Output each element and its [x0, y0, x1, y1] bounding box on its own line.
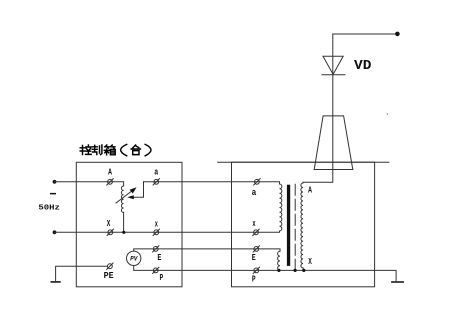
svg-text:A: A — [308, 185, 312, 196]
svg-text:X: X — [107, 218, 111, 229]
台 — [131, 145, 140, 155]
node source terminal upper (dot) — [53, 180, 57, 184]
stray mark — [387, 113, 389, 115]
node junction variac/X row — [122, 231, 125, 234]
wire PE to left ground — [56, 266, 108, 281]
制 — [92, 145, 102, 155]
bushing (porcelain, trapezoid on tank lid) — [314, 116, 353, 170]
diode VD (triangle + cathode bar) — [322, 56, 345, 74]
wire row X: source through X and x terminals to primary coil bottom — [55, 231, 280, 232]
箱 — [104, 145, 115, 155]
svg-text:A: A — [108, 167, 112, 178]
wire row P: meter bottom through P terminals, tank bus to right ground — [134, 266, 396, 281]
svg-text:E: E — [252, 252, 256, 263]
node HV output terminal (filled dot) — [395, 32, 400, 37]
terminal a (control box) — [153, 179, 159, 185]
svg-text:VD: VD — [354, 58, 371, 74]
wire secondary bottom to ground bus — [302, 268, 305, 271]
svg-text:PV: PV — [130, 256, 139, 263]
transformer T2 instrument winding E-P — [278, 251, 280, 270]
svg-text:50Hz: 50Hz — [38, 205, 60, 213]
svg-text:a: a — [154, 167, 158, 178]
svg-text:P: P — [252, 273, 256, 284]
wire HV vertical conductor through diode and bushing down into tank — [303, 34, 333, 182]
terminal x (tank) — [253, 229, 259, 235]
voltmeter PV — [127, 251, 141, 265]
ground left (PE earth bar) — [51, 281, 59, 283]
wire row a: variac tap to tank primary terminal a and coil top — [144, 182, 280, 184]
variac T1 winding (coil) — [121, 186, 123, 212]
tank lid line (overhangs tank box) — [218, 161, 389, 163]
svg-text:X: X — [308, 256, 312, 267]
node secondary X junction on ground bus — [302, 269, 305, 272]
svg-text:PE: PE — [104, 270, 114, 281]
（ — [121, 144, 127, 155]
label 控制箱（台） title (drawn strokes) — [80, 144, 151, 155]
svg-text:a: a — [252, 187, 257, 198]
svg-text:x: x — [155, 218, 158, 229]
node shield junction on ground bus — [294, 269, 297, 272]
node source terminal lower (dot) — [53, 230, 57, 234]
label ~ (AC) dash — [50, 193, 56, 195]
terminal P (tank) — [253, 267, 259, 273]
svg-text:x: x — [252, 218, 255, 229]
svg-text:P: P — [160, 272, 164, 283]
transformer T2 HV secondary winding A-X — [301, 183, 303, 268]
ground right (tank earth bar) — [392, 281, 403, 283]
variac wiper arrow (diagonal) — [116, 187, 137, 203]
transformer shield (dashed line to ground bus) — [294, 184, 296, 270]
wire HV top: from diode anode corner to top-right terminal — [333, 33, 398, 35]
） — [145, 144, 151, 155]
wire variac bottom down to row X — [123, 212, 125, 232]
wire row E: meter top to tank E-P coil — [134, 249, 280, 251]
transformer tank box — [232, 162, 375, 287]
terminal x (control box) — [153, 229, 159, 235]
terminal PE (control box) — [107, 263, 113, 269]
terminal P (control box) — [153, 267, 159, 273]
transformer core (solid bar) — [287, 185, 290, 266]
terminal a (tank) — [254, 179, 260, 185]
控 — [80, 145, 91, 155]
terminal X (control box) — [107, 229, 113, 235]
terminal A (control box) — [107, 179, 113, 185]
transformer T2 primary winding a-x — [280, 184, 282, 231]
variac tap arrow and tap wire to terminal a — [127, 182, 143, 200]
terminal E (control box) — [153, 246, 159, 252]
wire row A: source to variac top — [55, 182, 124, 186]
control box outline — [76, 162, 182, 286]
svg-text:E: E — [157, 252, 161, 263]
terminal E (tank) — [253, 246, 259, 252]
node E-P winding junction on ground bus — [277, 269, 280, 272]
